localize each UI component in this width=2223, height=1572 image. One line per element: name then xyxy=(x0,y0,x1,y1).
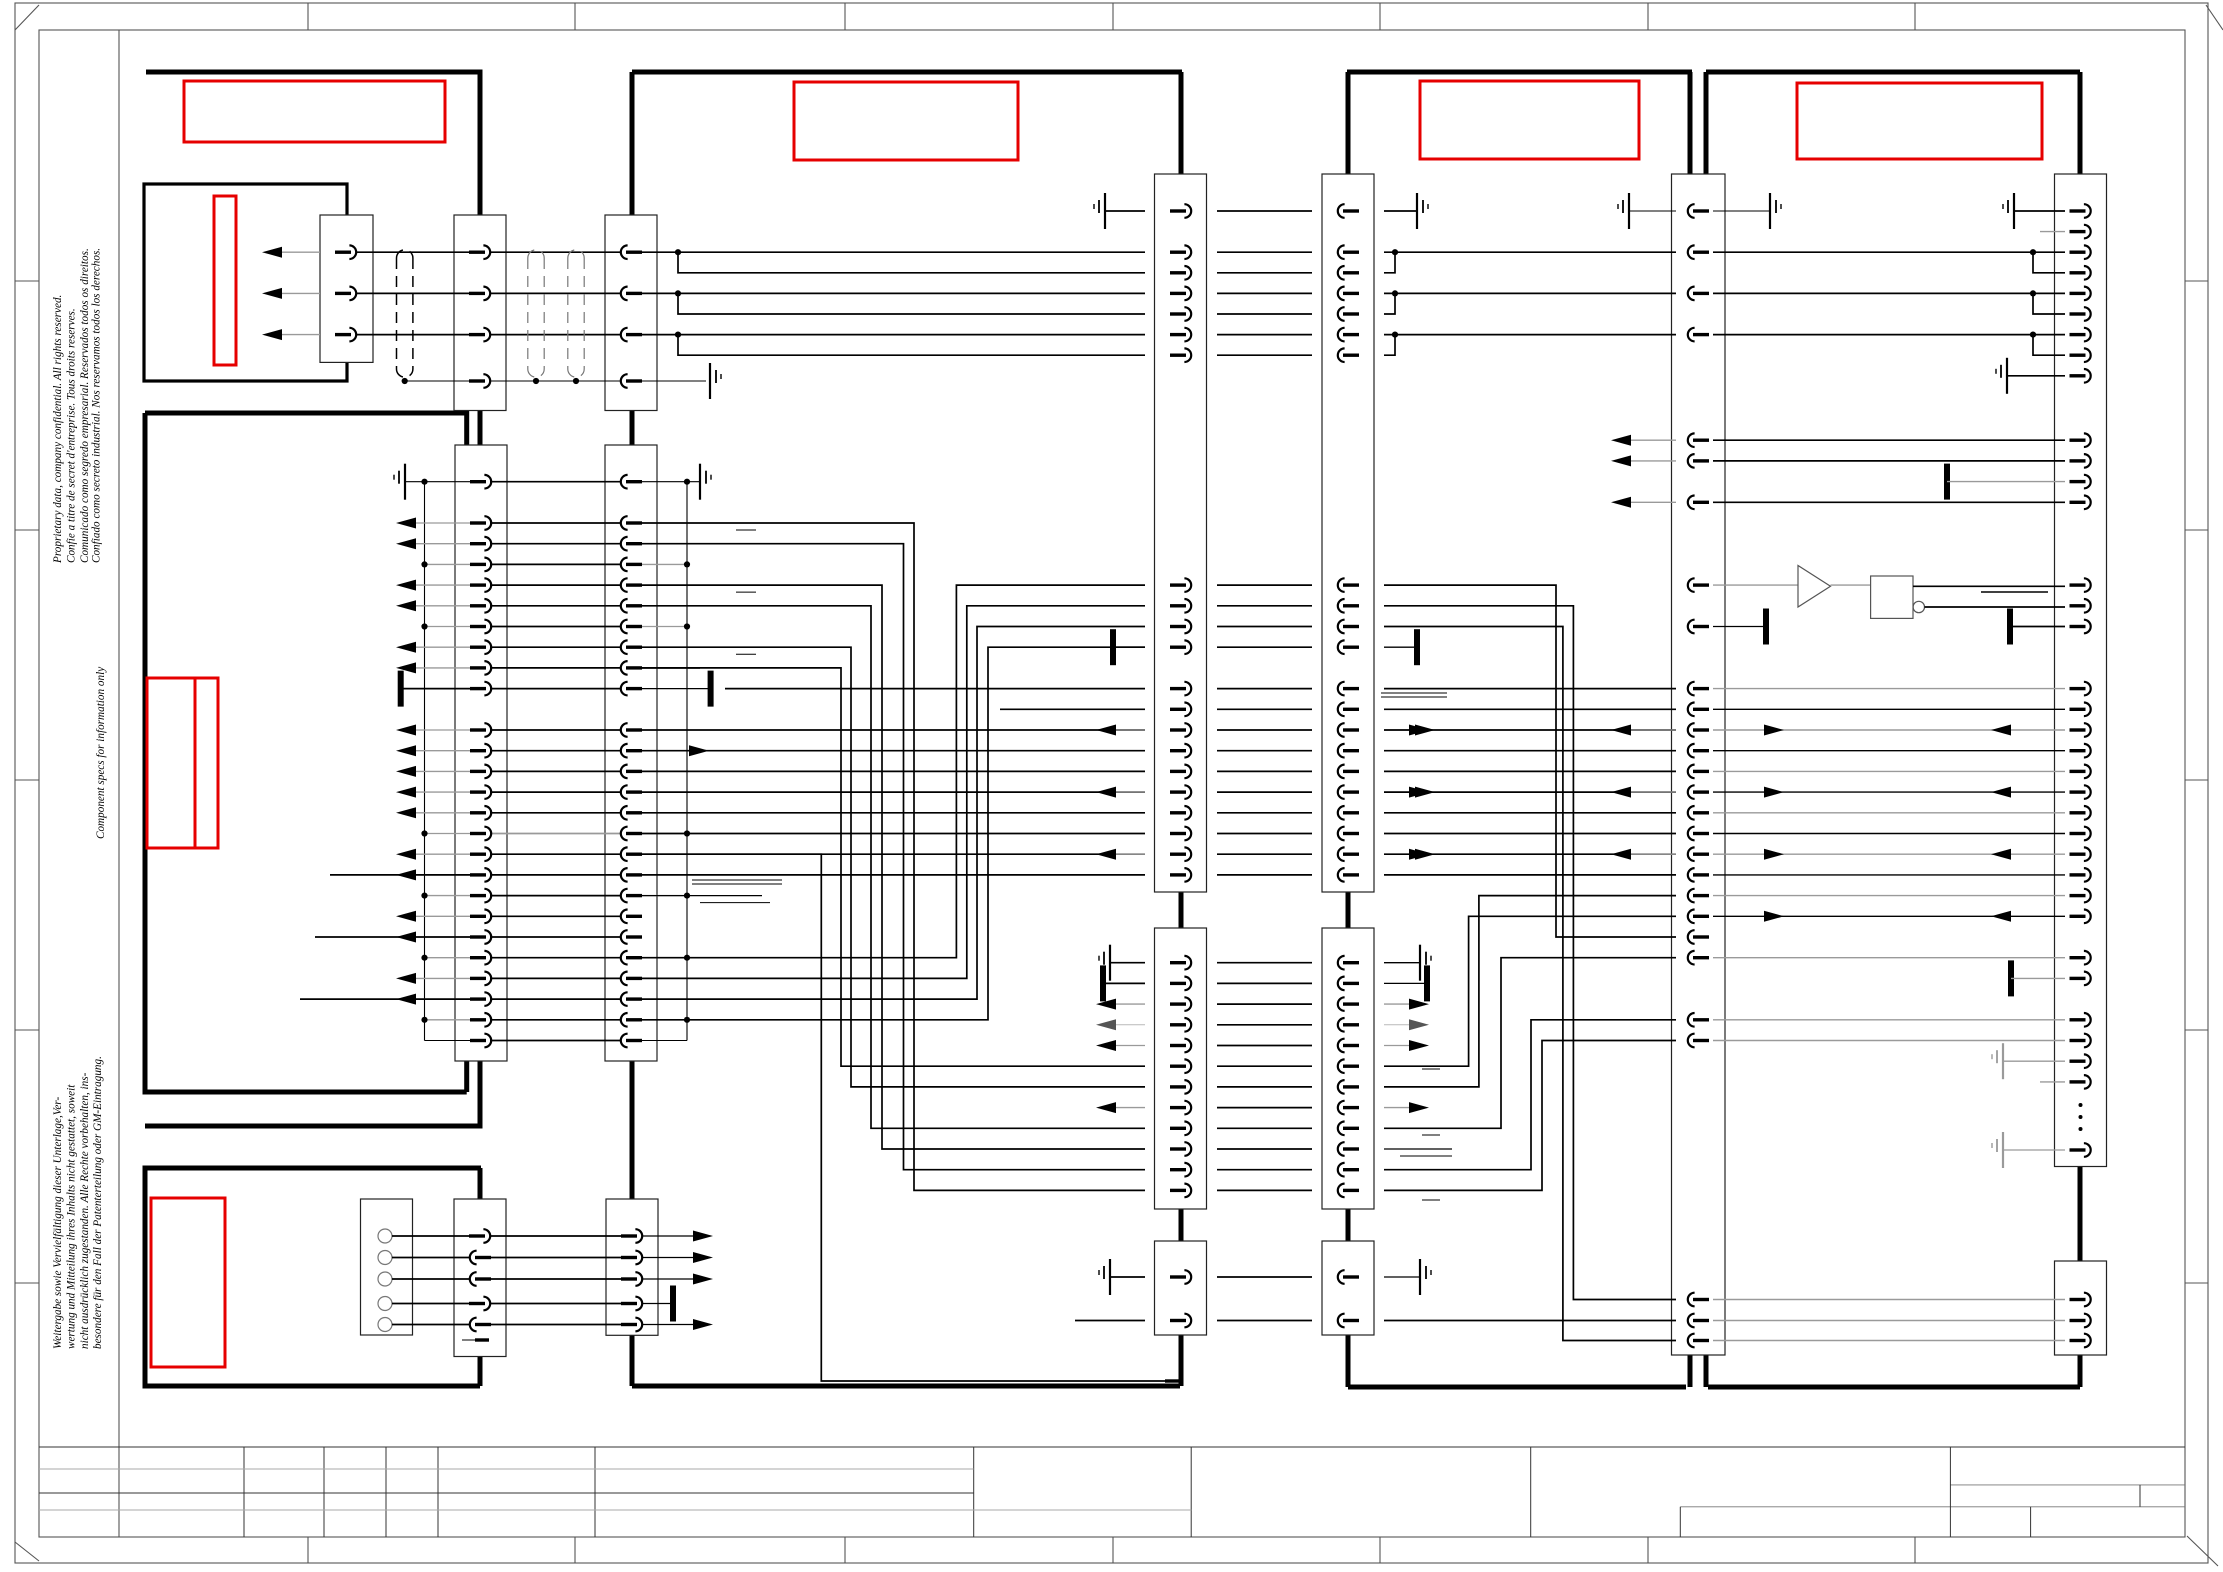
shield drain C to ground xyxy=(642,380,706,382)
buffer gate U1 xyxy=(1713,584,1798,586)
pins connector G1 xyxy=(2070,209,2086,212)
ground xyxy=(710,363,721,399)
module2 (left ECU) outline xyxy=(145,413,467,1092)
red label box module1 xyxy=(184,81,445,142)
C3 outputs with arrows xyxy=(643,1235,706,1237)
pins connector C tall xyxy=(626,480,642,483)
gate outputs to G xyxy=(1925,606,2066,608)
svg-text:Confie a titre de secret d': Confie a titre de secret d'entreprise. T… xyxy=(66,308,78,563)
G bar row t22 xyxy=(2008,960,2014,996)
wires E1 to F rows t8-t17 xyxy=(1384,688,1676,690)
shield drain wire to B-top xyxy=(405,380,470,382)
bars row t5 F-G xyxy=(1713,626,1766,628)
pins connector F xyxy=(1693,209,1709,212)
wires F to G rows t8-t19 xyxy=(1713,688,2065,690)
W2: E2 t31 up to F t24 xyxy=(1384,1020,1676,1170)
pins connector D2 xyxy=(1170,961,1186,964)
splice block with terminals xyxy=(361,1199,413,1335)
W2: E2 t26 up to F t19 xyxy=(1384,916,1676,1066)
net label dashes right of C xyxy=(736,529,756,531)
wires F t21 to G / t24 t25 xyxy=(1713,957,2065,959)
svg-text:nicht ausdrücklich zugestanden: nicht ausdrücklich zugestanden. Alle Rec… xyxy=(79,1072,91,1349)
ground xyxy=(1417,193,1428,229)
ground xyxy=(1420,1259,1431,1295)
ground xyxy=(1996,358,2007,394)
wires F to G top with pair jogs xyxy=(1713,251,2065,253)
margin text column divider xyxy=(118,30,120,1537)
pins connector E1 xyxy=(1343,209,1359,212)
tall section rows B-C xyxy=(490,522,621,524)
bar terminators row t8 xyxy=(398,671,404,707)
wires B3 to C3 xyxy=(490,1235,622,1237)
E1 top ground xyxy=(1384,210,1417,212)
W2: E1 t3 to F t20 xyxy=(1384,585,1676,937)
ground xyxy=(1099,1259,1110,1295)
connector E3 xyxy=(1322,1241,1374,1335)
ground xyxy=(2003,193,2014,229)
connector D2 xyxy=(1155,928,1207,1209)
connector E1 xyxy=(1322,174,1374,892)
connector E2 xyxy=(1322,928,1374,1209)
connector D1 xyxy=(1155,174,1207,892)
nand gate U2 xyxy=(1871,576,1913,618)
svg-text:Comunicado como segredo empres: Comunicado como segredo empresarial. Res… xyxy=(79,248,91,563)
E2 t30 stub xyxy=(1384,1148,1452,1150)
B tall left collector line xyxy=(424,482,426,1041)
ground xyxy=(1420,945,1431,981)
F top ground right xyxy=(1713,210,1770,212)
module3 (bottom-left) outline xyxy=(145,1168,481,1386)
C tall right collector line xyxy=(686,482,688,1041)
pins connector E3 xyxy=(1343,1275,1359,1278)
C t7 stub xyxy=(642,667,700,669)
border zone ticks right xyxy=(2185,280,2208,282)
connector G1 (module4 right) xyxy=(2055,174,2107,1167)
component box S (small top-left) xyxy=(144,184,347,381)
connector A (box S outlet) xyxy=(320,215,373,362)
direction arrow on row t11 xyxy=(689,745,709,756)
W2: E2 t32 up to F t25 xyxy=(1384,1041,1676,1191)
splice block terminals (circles) xyxy=(378,1229,392,1243)
E3 to G2 through wire row 1320.5 xyxy=(1384,1320,1676,1322)
collector corner into bottom row xyxy=(425,1040,471,1042)
F bottom rows to G2 xyxy=(1713,1299,2065,1301)
title block top line xyxy=(39,1446,2185,1448)
module box1 (top-left harness) outline xyxy=(145,72,480,1126)
ground xyxy=(1618,193,1629,229)
center module outline xyxy=(632,70,1182,75)
module3r (center-right) outline xyxy=(1347,70,1692,75)
border zone ticks bottom xyxy=(307,1537,309,1563)
connector B top xyxy=(454,215,506,411)
border zone ticks top xyxy=(307,3,309,30)
corner diagonal top-right xyxy=(2206,5,2223,30)
shielded-cable symbol xyxy=(568,250,584,377)
ground xyxy=(1992,1132,2003,1168)
ground xyxy=(1094,193,1105,229)
shield drain B-C xyxy=(490,380,621,382)
ground xyxy=(1099,945,1110,981)
title block rows right xyxy=(1950,1484,2185,1486)
splice block wires to B3 xyxy=(392,1235,470,1237)
shielded-cable symbol xyxy=(397,250,413,377)
pins connector G2 xyxy=(2070,1298,2086,1301)
title block verticals xyxy=(243,1447,245,1537)
wires C to D1 mid rows xyxy=(725,688,1145,690)
red label pair module2 xyxy=(147,678,195,848)
input arrows into connector A xyxy=(276,251,320,253)
S-wires C bottom rows up to D1 xyxy=(642,585,1145,958)
pins connector A xyxy=(335,250,351,253)
wires F to G rows 440-502 xyxy=(1713,439,2065,441)
corner diagonal top-left xyxy=(15,5,39,30)
module3 connector stubs xyxy=(478,1168,483,1199)
connector C tall xyxy=(605,445,657,1061)
wires D1-E1 mid rows xyxy=(1217,584,1312,586)
E1 pair-merge jogs and wires to F xyxy=(1392,249,1398,255)
label under gate output xyxy=(1981,591,2048,593)
wires B-top to C-top xyxy=(490,251,621,253)
pins connector B3 xyxy=(469,1234,485,1237)
connector B tall xyxy=(455,445,507,1061)
svg-text:Weitergabe sowie Vervielfält: Weitergabe sowie Vervielfältigung dieser… xyxy=(52,1097,64,1349)
connector D3 xyxy=(1155,1241,1207,1335)
module2 internal stubs to B xyxy=(330,874,470,876)
pins connector B top xyxy=(469,250,485,253)
red label box module4 xyxy=(1797,83,2042,159)
arrows D1 left / E1 right rows xyxy=(1110,729,1145,731)
label dashes E2 right xyxy=(1422,1068,1440,1070)
connector C3 (bottom-left) xyxy=(606,1199,658,1335)
ground xyxy=(700,464,711,500)
svg-text:Confiado como secreto industri: Confiado como secreto industrial. Nos re… xyxy=(91,248,103,563)
module4 (right) outline xyxy=(1706,70,2080,75)
bar to G row 481.6 xyxy=(1944,464,1950,500)
corner diagonal bottom-left xyxy=(15,1542,39,1561)
svg-text:Component specs for informatio: Component specs for information only xyxy=(95,667,107,839)
red label box module3 xyxy=(151,1198,225,1367)
C t18 stub + label xyxy=(642,895,762,897)
connector C top xyxy=(605,215,657,411)
connector F (module3r/module4 interface) xyxy=(1672,174,1726,1355)
ground xyxy=(1770,193,1781,229)
pins connector C3 xyxy=(621,1234,637,1237)
title block rows left xyxy=(39,1468,974,1470)
W2: E1 t5 down to F bottom pin 1340.5 xyxy=(1384,627,1676,1341)
pins connector E2 xyxy=(1343,961,1359,964)
label dashes between D and E xyxy=(1381,692,1447,694)
waterfall wires C top rows down to D2 xyxy=(642,523,1145,1190)
svg-text:Proprietary data, company con: Proprietary data, company confidential. … xyxy=(52,295,64,564)
D3 E3 row 1320.5 xyxy=(1075,1320,1145,1322)
connector B3 (bottom-left) xyxy=(454,1199,506,1357)
ground xyxy=(394,464,405,500)
ground xyxy=(1992,1043,2003,1079)
wires C-top toward D1 with pair jogs xyxy=(642,251,1145,253)
waterfall long wire C t16 to bottom xyxy=(642,854,1165,1381)
border zone ticks left xyxy=(15,280,39,282)
W2: E2 t29 up to F t21 xyxy=(1384,958,1676,1129)
red label box S (vertical) xyxy=(214,196,236,365)
bar left of D1 row t6 xyxy=(1110,629,1116,665)
pins connector D1 xyxy=(1170,209,1186,212)
pins connector D3 xyxy=(1170,1275,1186,1278)
wires A to B-top xyxy=(357,251,470,253)
G ellipsis dots xyxy=(2079,1103,2083,1107)
C3 output bar row xyxy=(643,1303,671,1305)
D2 E2 connections xyxy=(1217,962,1312,964)
shielded-cable symbol xyxy=(528,250,544,377)
W2: E1 t4 down to F bottom pin 1299.5 xyxy=(1384,606,1676,1300)
F-G arrows xyxy=(1764,725,1784,736)
W2: E2 t27 up to F t18 xyxy=(1384,896,1676,1087)
wires D1-E1 top rows xyxy=(1217,210,1312,212)
arrows right of E1 / left of F xyxy=(1415,725,1435,736)
G r1 stub xyxy=(2040,231,2065,233)
connector G2 (module4 right bottom) xyxy=(2055,1261,2107,1355)
bar right of E1 row t6 xyxy=(1384,646,1417,648)
pins connector B tall xyxy=(470,480,486,483)
red label box center module xyxy=(794,82,1018,160)
corner diagonal bottom-right xyxy=(2187,1536,2218,1566)
B3 spare pin xyxy=(462,1339,475,1341)
pins connector C top xyxy=(626,250,642,253)
red label box module3r xyxy=(1420,81,1639,159)
svg-text:wertung und Mitteilung ihres I: wertung und Mitteilung ihres Inhalts nic… xyxy=(66,1084,78,1349)
svg-text:besondere für den Fall der Pat: besondere für den Fall der Patenterteilu… xyxy=(92,1056,104,1349)
